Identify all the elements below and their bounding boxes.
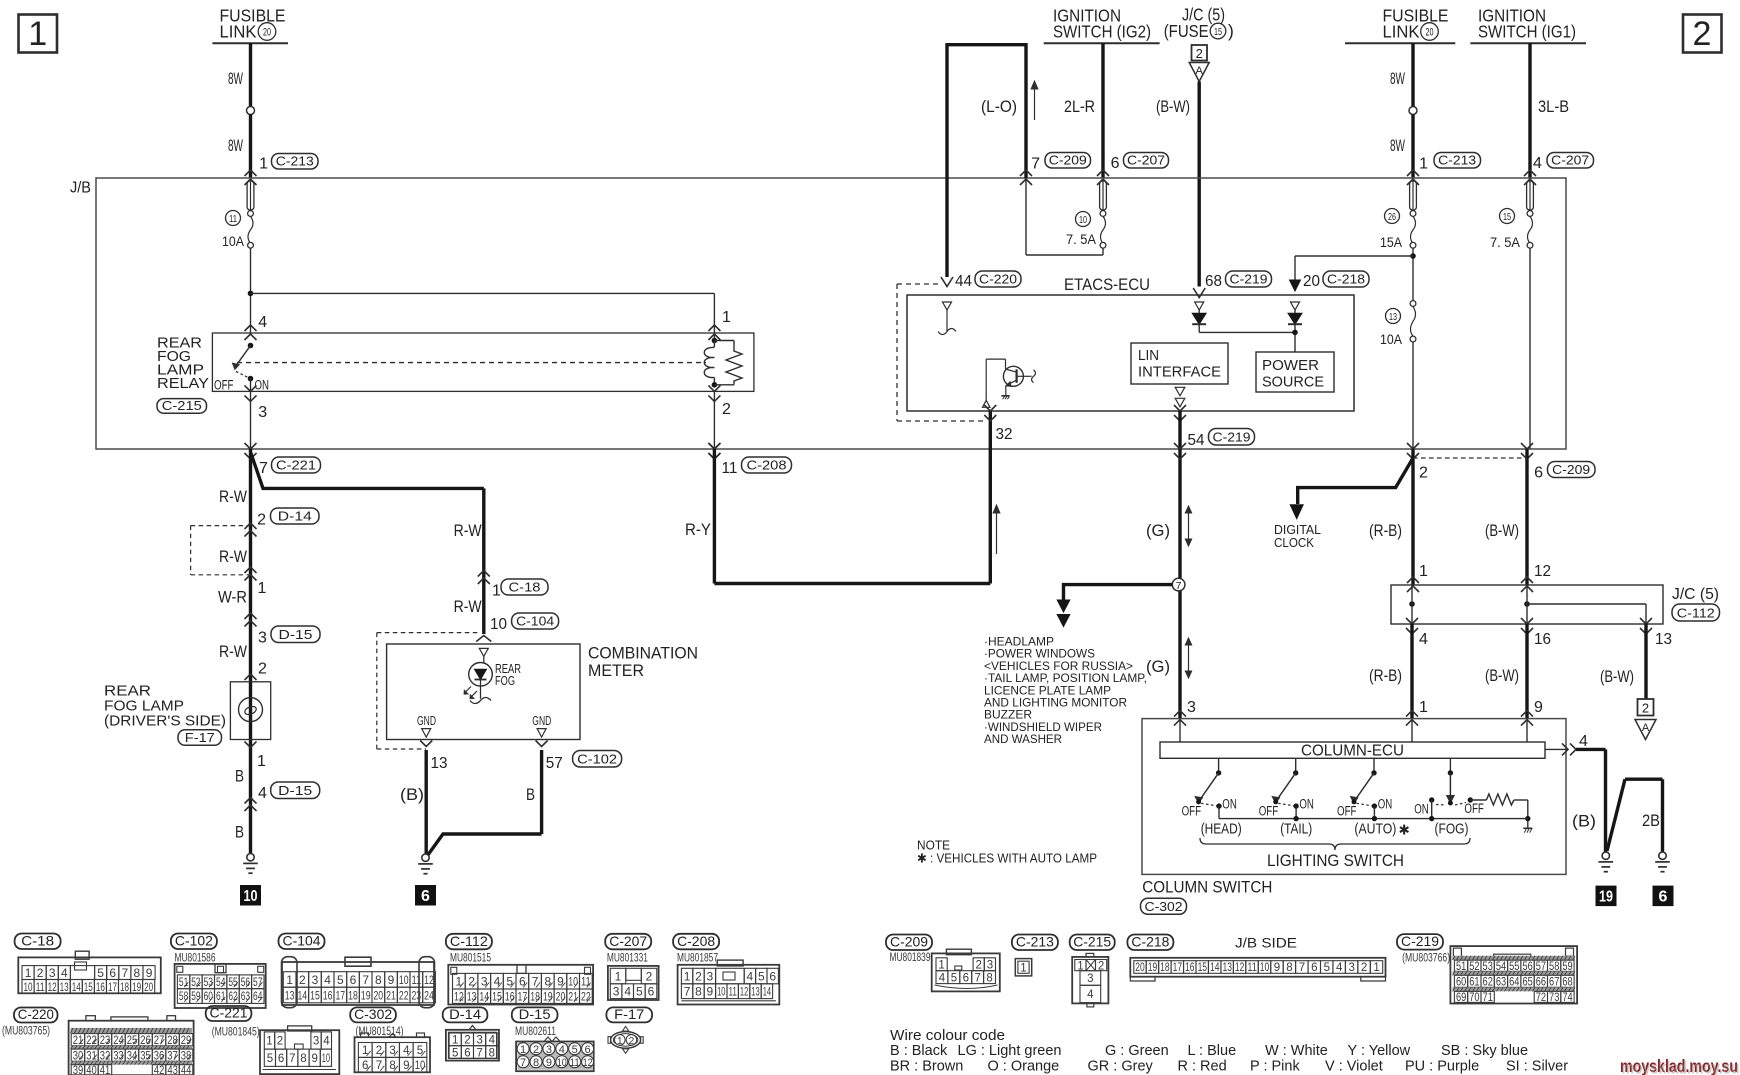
svg-text:8: 8: [695, 985, 702, 999]
svg-text:(B): (B): [1572, 812, 1596, 831]
svg-text:22: 22: [581, 990, 591, 1004]
svg-text:C-112: C-112: [450, 933, 488, 949]
svg-text:20: 20: [1303, 273, 1320, 290]
svg-text:1: 1: [722, 309, 731, 326]
svg-text:✱: ✱: [1399, 823, 1410, 838]
svg-text:Wire colour code: Wire colour code: [890, 1028, 1005, 1044]
svg-text:8: 8: [544, 975, 551, 989]
svg-text:10: 10: [717, 985, 726, 999]
svg-text:7: 7: [362, 973, 369, 987]
svg-text:11: 11: [229, 213, 237, 225]
svg-text:20: 20: [373, 988, 383, 1002]
svg-text:4: 4: [559, 1044, 565, 1056]
svg-text:70: 70: [1469, 992, 1479, 1004]
svg-text:2: 2: [1361, 962, 1367, 974]
svg-text:8W: 8W: [1390, 69, 1405, 88]
svg-text:ON: ON: [1378, 797, 1393, 812]
svg-text:C-220: C-220: [18, 1006, 54, 1022]
svg-text:17: 17: [108, 980, 117, 994]
svg-text:6: 6: [648, 985, 655, 999]
svg-text:11: 11: [722, 460, 738, 477]
svg-text:44: 44: [181, 1065, 192, 1075]
svg-text:1: 1: [615, 969, 622, 983]
svg-text:8: 8: [533, 1057, 539, 1069]
svg-text:COMBINATION: COMBINATION: [588, 645, 698, 663]
svg-text:54: 54: [1188, 432, 1205, 449]
svg-text:1: 1: [257, 753, 266, 770]
svg-text:9: 9: [557, 975, 564, 989]
svg-text:GR : Grey: GR : Grey: [1088, 1059, 1154, 1075]
svg-text:MU801857: MU801857: [677, 953, 718, 965]
svg-text:3: 3: [707, 969, 714, 983]
svg-text:C-18: C-18: [509, 580, 541, 595]
svg-text:57: 57: [253, 977, 262, 989]
svg-text:59: 59: [1562, 961, 1572, 973]
svg-text:C-213: C-213: [1016, 934, 1054, 950]
svg-text:C-221: C-221: [276, 458, 316, 473]
svg-text:8W: 8W: [1390, 136, 1405, 155]
svg-text:C-102: C-102: [175, 933, 213, 949]
svg-text:11: 11: [581, 975, 591, 989]
svg-text:(G): (G): [1146, 521, 1170, 540]
svg-text:B: B: [235, 767, 244, 786]
svg-text:20: 20: [556, 990, 566, 1004]
svg-text:13: 13: [1655, 631, 1672, 648]
svg-text:63: 63: [241, 991, 250, 1003]
svg-text:11: 11: [729, 985, 738, 999]
svg-text:1: 1: [492, 583, 501, 600]
svg-text:P : Pink: P : Pink: [1250, 1059, 1300, 1075]
svg-text:55: 55: [228, 977, 237, 989]
svg-text:F-17: F-17: [614, 1006, 644, 1022]
svg-text:61: 61: [216, 991, 225, 1003]
svg-text:moysklad.moy.su: moysklad.moy.su: [1622, 1058, 1740, 1075]
svg-text:51: 51: [179, 977, 188, 989]
svg-text:2: 2: [258, 661, 267, 678]
svg-text:MU801331: MU801331: [607, 953, 648, 965]
svg-text:3: 3: [49, 966, 56, 980]
svg-text:2: 2: [1693, 15, 1712, 53]
svg-text:3: 3: [476, 1035, 482, 1047]
svg-text:C-219: C-219: [1401, 933, 1439, 949]
svg-text:L : Blue: L : Blue: [1188, 1043, 1237, 1059]
svg-text:6: 6: [464, 1047, 470, 1059]
svg-text:Y : Yellow: Y : Yellow: [1348, 1043, 1411, 1059]
svg-text:9: 9: [546, 1057, 552, 1069]
svg-text:C-207: C-207: [609, 933, 647, 949]
svg-text:11: 11: [36, 980, 45, 994]
svg-text:14: 14: [1210, 962, 1220, 974]
svg-text:12: 12: [740, 985, 749, 999]
svg-text:2: 2: [468, 975, 475, 989]
svg-text:(B-W): (B-W): [1156, 97, 1190, 116]
svg-text:43: 43: [167, 1065, 178, 1075]
svg-text:C-213: C-213: [276, 154, 314, 169]
svg-text:(B-W): (B-W): [1485, 666, 1519, 685]
svg-text:17: 17: [335, 988, 345, 1002]
svg-text:LIGHTING SWITCH: LIGHTING SWITCH: [1267, 852, 1404, 870]
svg-text:(B): (B): [400, 785, 424, 804]
svg-text:6: 6: [1111, 155, 1120, 172]
svg-text:8: 8: [489, 1047, 495, 1059]
svg-text:2: 2: [695, 969, 702, 983]
svg-text:(TAIL): (TAIL): [1280, 822, 1312, 838]
svg-text:73: 73: [1549, 992, 1559, 1004]
svg-text:12: 12: [1534, 563, 1551, 580]
svg-text:CLOCK: CLOCK: [1274, 536, 1315, 550]
svg-text:7: 7: [974, 972, 980, 984]
svg-text:71: 71: [1483, 992, 1493, 1004]
svg-text:1: 1: [1419, 699, 1428, 716]
svg-text:OFF: OFF: [1182, 804, 1202, 819]
svg-text:26: 26: [1388, 211, 1396, 223]
svg-text:2: 2: [257, 512, 266, 529]
svg-text:V : Violet: V : Violet: [1325, 1059, 1383, 1075]
svg-text:9: 9: [1274, 962, 1280, 974]
svg-text:5: 5: [97, 966, 104, 980]
svg-text:18: 18: [530, 990, 540, 1004]
svg-text:LINK: LINK: [220, 22, 257, 42]
svg-text:62: 62: [1483, 977, 1493, 989]
svg-text:(MU803766): (MU803766): [1402, 953, 1450, 965]
svg-text:7: 7: [684, 985, 691, 999]
svg-text:6: 6: [278, 1053, 284, 1065]
svg-text:C-215: C-215: [1073, 934, 1111, 950]
svg-text:8: 8: [134, 966, 141, 980]
svg-text:(FOG): (FOG): [1435, 822, 1469, 838]
svg-text:R-W: R-W: [219, 487, 247, 506]
svg-text:1: 1: [1419, 563, 1428, 580]
svg-text:5: 5: [572, 1044, 578, 1056]
svg-text:10A: 10A: [1380, 331, 1403, 347]
svg-text:41: 41: [100, 1065, 111, 1075]
svg-text:4: 4: [61, 966, 68, 980]
svg-text:(G): (G): [1146, 657, 1170, 676]
svg-text:COLUMN SWITCH: COLUMN SWITCH: [1142, 879, 1272, 897]
svg-text:D-15: D-15: [278, 783, 312, 798]
svg-text:NOTE: NOTE: [917, 839, 950, 853]
svg-text:ON: ON: [255, 378, 270, 393]
svg-text:20: 20: [263, 27, 271, 39]
svg-text:22: 22: [399, 988, 409, 1002]
svg-text:64: 64: [1509, 977, 1520, 989]
svg-text:7: 7: [121, 966, 128, 980]
svg-text:MU802611: MU802611: [515, 1026, 556, 1038]
svg-text:C-209: C-209: [890, 934, 928, 950]
svg-text:11: 11: [570, 1057, 580, 1069]
svg-text:6: 6: [421, 888, 430, 905]
svg-text:9: 9: [146, 966, 153, 980]
svg-text:12: 12: [583, 1057, 593, 1069]
svg-text:MU801839: MU801839: [890, 952, 931, 964]
svg-text:5: 5: [267, 1053, 273, 1065]
svg-text:1: 1: [684, 969, 691, 983]
svg-text:21: 21: [386, 988, 396, 1002]
svg-text:10: 10: [244, 888, 258, 905]
svg-text:SWITCH (IG1): SWITCH (IG1): [1478, 22, 1576, 42]
svg-text:C-208: C-208: [747, 458, 787, 473]
svg-text:ETACS-ECU: ETACS-ECU: [1064, 276, 1150, 294]
svg-text:C-219: C-219: [1213, 430, 1251, 445]
svg-text:PU : Purple: PU : Purple: [1405, 1059, 1479, 1075]
svg-text:4: 4: [747, 969, 754, 983]
svg-text:C-209: C-209: [1552, 462, 1590, 477]
svg-text:5: 5: [951, 972, 957, 984]
svg-text:40: 40: [86, 1065, 97, 1075]
svg-text:(L-O): (L-O): [981, 97, 1017, 116]
svg-text:ON: ON: [1299, 797, 1314, 812]
svg-text:42: 42: [154, 1065, 165, 1075]
svg-text:15: 15: [310, 988, 320, 1002]
svg-text:2: 2: [1642, 701, 1649, 716]
svg-text:8W: 8W: [228, 69, 243, 88]
svg-text:O : Orange: O : Orange: [988, 1059, 1060, 1075]
svg-text:SWITCH (IG2): SWITCH (IG2): [1053, 22, 1151, 42]
svg-text:3: 3: [987, 959, 993, 971]
svg-text:(MU803765): (MU803765): [2, 1026, 50, 1038]
svg-text:6: 6: [963, 972, 969, 984]
svg-text:10: 10: [1260, 962, 1269, 974]
svg-text:J/B SIDE: J/B SIDE: [1235, 936, 1297, 951]
svg-text:C-207: C-207: [1127, 153, 1165, 168]
svg-text:D-15: D-15: [279, 627, 313, 642]
svg-text:57: 57: [546, 755, 563, 772]
svg-text:52: 52: [191, 977, 200, 989]
svg-text:(AUTO): (AUTO): [1354, 822, 1396, 838]
svg-text:60: 60: [1456, 977, 1466, 989]
svg-text:C-209: C-209: [1049, 153, 1087, 168]
svg-text:C-221: C-221: [210, 1005, 248, 1021]
svg-text:4: 4: [1087, 989, 1094, 1001]
svg-text:(B-W): (B-W): [1485, 521, 1519, 540]
svg-text:1: 1: [259, 156, 268, 173]
svg-text:4: 4: [403, 1045, 410, 1057]
svg-text:10: 10: [23, 980, 32, 994]
svg-text:53: 53: [1483, 961, 1493, 973]
svg-text:17: 17: [518, 990, 528, 1004]
svg-text:1: 1: [617, 1035, 623, 1047]
svg-text:52: 52: [1469, 961, 1479, 973]
svg-text:58: 58: [179, 991, 188, 1003]
svg-text:C-215: C-215: [162, 399, 202, 413]
svg-text:GND: GND: [417, 714, 436, 728]
svg-text:3: 3: [1348, 962, 1354, 974]
svg-text:72: 72: [1536, 992, 1546, 1004]
svg-text:3: 3: [258, 404, 267, 421]
svg-text:7: 7: [532, 975, 539, 989]
svg-text:59: 59: [191, 991, 200, 1003]
svg-text:INTERFACE: INTERFACE: [1138, 364, 1221, 381]
svg-text:5: 5: [452, 1047, 458, 1059]
svg-text:2: 2: [975, 959, 981, 971]
svg-text:15: 15: [1503, 211, 1511, 223]
svg-text:R-W: R-W: [219, 642, 247, 661]
svg-text:19: 19: [1599, 889, 1613, 906]
svg-text:C-18: C-18: [21, 933, 54, 949]
svg-text:2: 2: [1419, 465, 1428, 482]
svg-text:20: 20: [1426, 27, 1434, 39]
svg-text:68: 68: [1562, 977, 1572, 989]
svg-text:A: A: [1196, 65, 1204, 77]
svg-text:C-219: C-219: [1230, 272, 1268, 287]
svg-text:6: 6: [109, 966, 116, 980]
svg-text:19: 19: [361, 988, 371, 1002]
svg-text:SI : Silver: SI : Silver: [1506, 1059, 1568, 1075]
svg-text:4: 4: [323, 1036, 330, 1048]
svg-text:7. 5A: 7. 5A: [1066, 231, 1097, 247]
svg-text:R-W: R-W: [454, 521, 482, 540]
svg-text:19: 19: [1148, 962, 1157, 974]
svg-text:11: 11: [1247, 962, 1256, 974]
svg-text:W : White: W : White: [1265, 1043, 1328, 1059]
svg-text:1: 1: [286, 973, 293, 987]
svg-text:C-218: C-218: [1327, 272, 1365, 287]
svg-text:(FUSE: (FUSE: [1164, 21, 1209, 41]
svg-text:16: 16: [1185, 962, 1194, 974]
svg-text:7: 7: [289, 1053, 295, 1065]
svg-text:54: 54: [1496, 961, 1507, 973]
svg-text:8: 8: [375, 973, 382, 987]
svg-text:4: 4: [624, 985, 631, 999]
svg-text:D-15: D-15: [519, 1006, 551, 1022]
svg-text:4: 4: [258, 314, 267, 331]
svg-text:10: 10: [322, 1053, 330, 1065]
svg-text:13: 13: [285, 988, 295, 1002]
svg-text:13: 13: [60, 980, 69, 994]
svg-text:13: 13: [751, 985, 760, 999]
svg-text:4: 4: [324, 973, 331, 987]
svg-text:(MU801514): (MU801514): [356, 1026, 404, 1038]
svg-text:62: 62: [228, 991, 237, 1003]
svg-text:1: 1: [456, 975, 463, 989]
svg-text:3: 3: [1187, 699, 1196, 716]
svg-text:6: 6: [519, 975, 526, 989]
svg-text:56: 56: [1522, 961, 1532, 973]
svg-text:(R-B): (R-B): [1369, 666, 1402, 685]
svg-text:(B-W): (B-W): [1600, 667, 1634, 686]
svg-text:7: 7: [259, 460, 268, 477]
svg-text:2: 2: [464, 1035, 470, 1047]
svg-text:(R-B): (R-B): [1369, 521, 1402, 540]
svg-text:58: 58: [1549, 961, 1559, 973]
svg-text:3L-B: 3L-B: [1538, 97, 1569, 116]
svg-text:6: 6: [769, 969, 776, 983]
svg-text:12: 12: [1235, 962, 1244, 974]
svg-text:9: 9: [707, 985, 714, 999]
svg-text:13: 13: [431, 755, 448, 772]
svg-text:LINK: LINK: [1383, 22, 1420, 42]
svg-text:2: 2: [277, 1036, 283, 1048]
svg-text:3: 3: [1087, 973, 1093, 985]
svg-text:A: A: [1642, 722, 1650, 734]
svg-text:BR : Brown: BR : Brown: [890, 1059, 963, 1075]
svg-text:21: 21: [568, 990, 578, 1004]
svg-text:13: 13: [1222, 962, 1231, 974]
svg-text:12: 12: [424, 973, 434, 987]
svg-text:15: 15: [492, 990, 502, 1004]
svg-text:18: 18: [1160, 962, 1169, 974]
svg-text:10: 10: [399, 973, 409, 987]
svg-text:8: 8: [300, 1053, 306, 1065]
svg-text:R-W: R-W: [219, 547, 247, 566]
svg-text:W-R: W-R: [218, 588, 247, 607]
svg-text:7: 7: [1176, 580, 1182, 592]
svg-text:14: 14: [72, 980, 81, 994]
svg-text:1: 1: [266, 1036, 272, 1048]
svg-text:8W: 8W: [228, 136, 243, 155]
svg-text:✱ : VEHICLES WITH AUTO LAMP: ✱ : VEHICLES WITH AUTO LAMP: [917, 852, 1097, 866]
svg-text:(HEAD): (HEAD): [1201, 822, 1242, 838]
svg-text:16: 16: [505, 990, 515, 1004]
svg-text:R-W: R-W: [454, 597, 482, 616]
svg-text:C-213: C-213: [1438, 153, 1476, 168]
svg-text:69: 69: [1456, 992, 1466, 1004]
svg-text:LG : Light green: LG : Light green: [958, 1043, 1062, 1059]
svg-text:8: 8: [1286, 962, 1292, 974]
svg-text:5: 5: [506, 975, 513, 989]
svg-text:2: 2: [628, 1035, 634, 1047]
svg-text:15: 15: [1214, 26, 1222, 38]
svg-text:J/C (5): J/C (5): [1672, 586, 1719, 603]
svg-text:18: 18: [348, 988, 358, 1002]
svg-text:4: 4: [489, 1035, 496, 1047]
svg-text:1: 1: [1373, 962, 1379, 974]
svg-text:C-218: C-218: [1131, 934, 1169, 950]
svg-text:F-17: F-17: [185, 730, 215, 745]
svg-text:6: 6: [350, 973, 357, 987]
svg-text:61: 61: [1469, 977, 1479, 989]
svg-text:23: 23: [411, 988, 421, 1002]
svg-text:OFF: OFF: [1259, 804, 1279, 819]
svg-text:3: 3: [546, 1044, 552, 1056]
svg-text:15: 15: [1198, 962, 1207, 974]
svg-text:18: 18: [120, 980, 129, 994]
svg-text:2: 2: [646, 969, 653, 983]
svg-text:J/B: J/B: [70, 180, 91, 197]
svg-text:C-104: C-104: [516, 614, 554, 629]
svg-text:3: 3: [258, 630, 267, 647]
svg-text:C-208: C-208: [677, 933, 715, 949]
svg-text:C-302: C-302: [1145, 899, 1183, 914]
svg-text:3: 3: [313, 1036, 319, 1048]
svg-text:METER: METER: [588, 662, 644, 680]
svg-text:7: 7: [1299, 962, 1305, 974]
svg-text:13: 13: [467, 990, 477, 1004]
svg-text:12: 12: [454, 990, 464, 1004]
svg-text:10A: 10A: [222, 233, 245, 249]
svg-text:1: 1: [938, 959, 944, 971]
svg-text:10: 10: [568, 975, 578, 989]
svg-text:2: 2: [722, 401, 731, 418]
svg-text:C-302: C-302: [354, 1006, 392, 1022]
svg-text:7: 7: [476, 1047, 482, 1059]
svg-text:14: 14: [297, 988, 307, 1002]
svg-text:LIN: LIN: [1138, 347, 1159, 364]
svg-text:MU801586: MU801586: [175, 953, 216, 965]
svg-text:10: 10: [490, 616, 507, 633]
svg-text:4: 4: [1419, 631, 1428, 648]
svg-text:B: B: [526, 785, 535, 804]
svg-text:3: 3: [613, 985, 620, 999]
svg-text:53: 53: [204, 977, 213, 989]
svg-text:65: 65: [1522, 977, 1532, 989]
svg-text:2: 2: [1196, 46, 1203, 61]
svg-text:20: 20: [1135, 962, 1144, 974]
svg-text:17: 17: [1173, 962, 1182, 974]
svg-text:5: 5: [1324, 962, 1330, 974]
svg-text:2: 2: [37, 966, 44, 980]
svg-text:RELAY: RELAY: [157, 375, 209, 392]
